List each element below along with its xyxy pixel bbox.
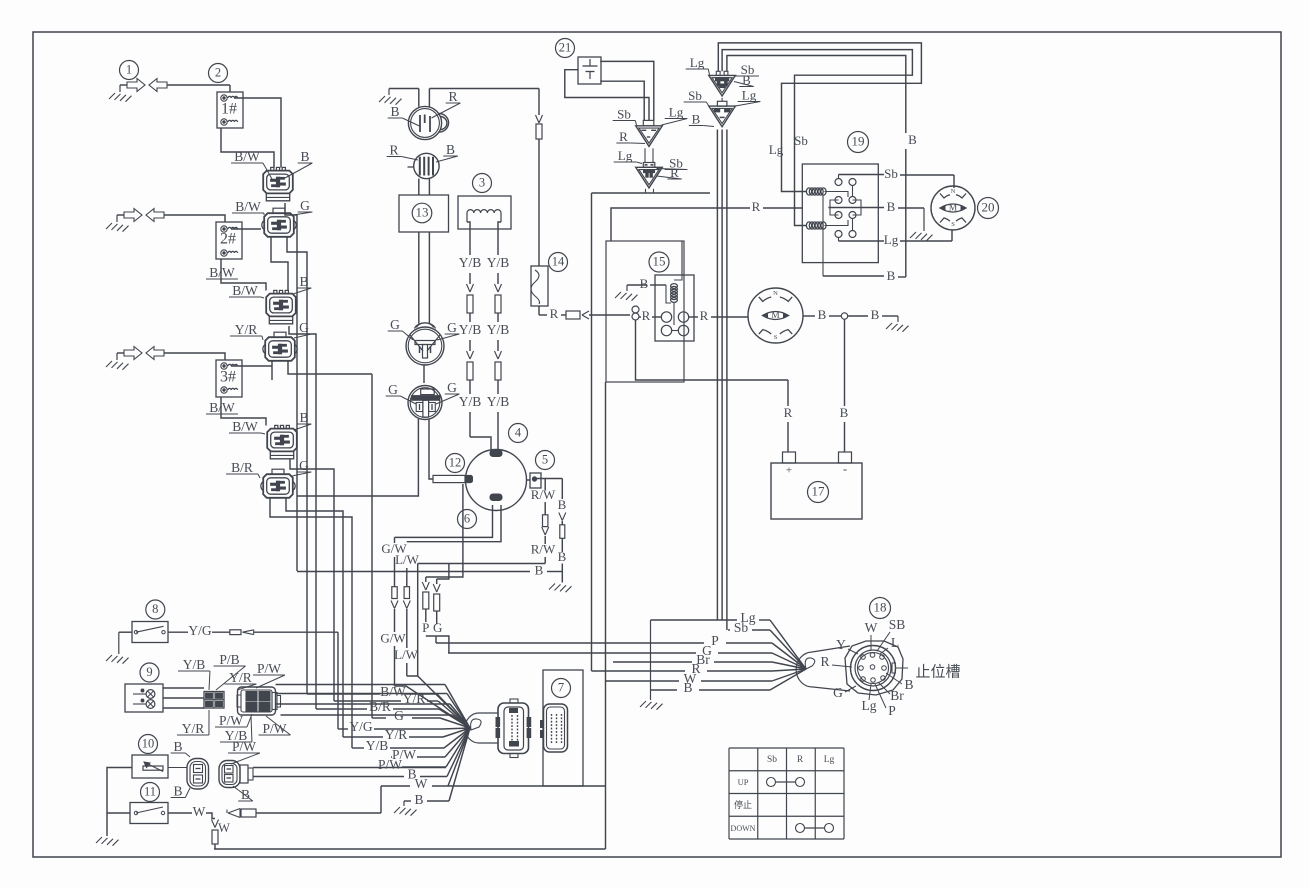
svg-text:19: 19 (852, 133, 865, 148)
svg-text:B/W: B/W (232, 419, 258, 434)
svg-text:DOWN: DOWN (731, 824, 756, 833)
svg-text:Y/B: Y/B (183, 657, 206, 672)
svg-text:B: B (535, 562, 544, 577)
svg-text:Sb: Sb (767, 755, 777, 765)
svg-text:Sb: Sb (794, 133, 808, 148)
svg-text:Y/B: Y/B (459, 255, 482, 270)
svg-text:P/W: P/W (378, 757, 402, 772)
svg-text:B: B (887, 199, 896, 214)
svg-text:1: 1 (126, 62, 132, 76)
svg-text:R/W: R/W (531, 487, 556, 502)
svg-text:10: 10 (142, 736, 155, 750)
svg-text:Y/B: Y/B (487, 322, 510, 337)
svg-text:Y/B: Y/B (487, 255, 510, 270)
svg-text:Y/R: Y/R (229, 670, 252, 685)
svg-text:21: 21 (559, 40, 572, 54)
svg-text:G: G (300, 198, 310, 213)
svg-text:L/W: L/W (395, 552, 420, 567)
svg-text:R: R (797, 755, 804, 765)
svg-text:Y/B: Y/B (459, 394, 482, 409)
svg-text:Y/B: Y/B (487, 394, 510, 409)
svg-text:R: R (752, 199, 761, 214)
svg-text:P/W: P/W (257, 661, 281, 676)
svg-text:B/W: B/W (234, 149, 260, 164)
svg-text:W: W (218, 821, 230, 835)
svg-text:B: B (446, 142, 455, 157)
svg-text:Y/R: Y/R (403, 691, 426, 706)
svg-text:5: 5 (542, 452, 548, 466)
svg-text:P/B: P/B (219, 652, 239, 667)
svg-text:R: R (784, 405, 793, 420)
svg-text:R: R (700, 308, 709, 323)
svg-text:3: 3 (479, 175, 485, 189)
svg-text:B: B (904, 677, 913, 692)
svg-text:N: N (773, 290, 778, 297)
svg-text:G: G (447, 320, 457, 335)
svg-text:L/W: L/W (394, 647, 419, 662)
svg-text:B: B (173, 739, 182, 754)
svg-text:B: B (558, 497, 567, 512)
svg-text:B/W: B/W (209, 400, 235, 415)
svg-text:G: G (388, 382, 398, 397)
svg-text:Y/B: Y/B (459, 322, 482, 337)
svg-text:B: B (300, 149, 309, 164)
svg-text:止位槽: 止位槽 (915, 663, 960, 680)
svg-text:Y/R: Y/R (235, 322, 258, 337)
svg-text:R: R (642, 308, 651, 323)
svg-text:P/W: P/W (262, 721, 286, 736)
svg-text:R: R (550, 306, 559, 321)
svg-text:W: W (865, 620, 878, 635)
svg-text:Sb: Sb (688, 88, 702, 103)
svg-text:13: 13 (416, 204, 429, 219)
svg-text:W: W (193, 804, 206, 819)
svg-text:Br: Br (890, 688, 904, 703)
svg-text:Y/G: Y/G (349, 719, 373, 734)
svg-text:停止: 停止 (734, 799, 752, 810)
svg-text:N: N (951, 188, 956, 195)
svg-text:P/W: P/W (232, 739, 256, 754)
svg-text:1#: 1# (221, 101, 237, 118)
svg-text:P: P (711, 633, 719, 648)
svg-text:G: G (433, 620, 442, 635)
svg-text:UP: UP (738, 777, 749, 787)
svg-text:B: B (908, 132, 917, 147)
svg-text:G: G (447, 380, 457, 395)
svg-text:G: G (833, 685, 843, 700)
svg-text:B: B (683, 680, 692, 695)
svg-text:Lg: Lg (669, 104, 684, 119)
svg-text:17: 17 (812, 483, 826, 498)
svg-text:L: L (891, 635, 899, 650)
svg-text:B: B (390, 104, 399, 119)
svg-text:-: - (843, 461, 847, 476)
svg-text:B/R: B/R (231, 460, 253, 475)
svg-text:4: 4 (515, 425, 522, 439)
svg-text:Lg: Lg (742, 87, 757, 102)
svg-text:Lg: Lg (884, 232, 899, 247)
svg-text:B: B (692, 111, 701, 126)
svg-text:B/W: B/W (209, 265, 235, 280)
svg-text:Lg: Lg (618, 148, 633, 163)
svg-text:14: 14 (552, 254, 565, 268)
svg-text:Lg: Lg (690, 55, 705, 70)
svg-text:R/W: R/W (531, 541, 556, 556)
svg-text:+: + (786, 465, 792, 477)
svg-text:R: R (389, 143, 398, 158)
svg-text:S: S (951, 221, 955, 228)
svg-text:G: G (394, 708, 404, 723)
svg-text:W: W (415, 776, 428, 791)
svg-text:6: 6 (464, 511, 470, 525)
svg-text:B/W: B/W (235, 199, 261, 214)
svg-text:18: 18 (874, 599, 887, 614)
svg-text:Sb: Sb (734, 620, 749, 635)
svg-text:15: 15 (653, 253, 666, 268)
svg-text:Lg: Lg (862, 698, 877, 713)
svg-text:R: R (619, 129, 628, 144)
svg-text:Y/G: Y/G (188, 623, 212, 638)
svg-text:P/W: P/W (219, 713, 243, 728)
svg-text:B: B (173, 784, 182, 799)
svg-text:R: R (448, 89, 457, 104)
svg-text:Lg: Lg (824, 755, 835, 765)
svg-text:11: 11 (144, 784, 156, 798)
svg-text:B: B (558, 549, 567, 564)
svg-text:B: B (818, 307, 827, 322)
svg-text:20: 20 (982, 199, 995, 214)
svg-text:P: P (888, 703, 896, 718)
svg-text:B/R: B/R (369, 699, 391, 714)
svg-text:Lg: Lg (769, 142, 784, 157)
svg-text:Sb: Sb (617, 106, 631, 121)
svg-text:G: G (390, 317, 400, 332)
svg-text:Y: Y (836, 637, 846, 652)
svg-text:8: 8 (152, 602, 158, 616)
svg-text:SB: SB (889, 617, 906, 632)
svg-text:R: R (820, 654, 829, 669)
svg-text:B: B (887, 268, 896, 283)
svg-text:G/W: G/W (380, 630, 406, 645)
svg-text:B: B (640, 276, 649, 291)
svg-text:B: B (871, 307, 880, 322)
svg-text:Y/R: Y/R (182, 721, 205, 736)
svg-text:M: M (949, 204, 958, 214)
svg-text:B: B (414, 792, 423, 807)
svg-text:P: P (422, 620, 429, 635)
svg-text:9: 9 (146, 665, 152, 679)
svg-text:M: M (771, 311, 780, 321)
svg-text:2#: 2# (220, 231, 236, 248)
svg-text:Y/B: Y/B (366, 738, 389, 753)
svg-text:2: 2 (215, 65, 221, 79)
svg-text:3#: 3# (220, 369, 236, 386)
svg-text:12: 12 (449, 455, 462, 469)
svg-text:S: S (774, 334, 778, 341)
svg-text:B: B (241, 787, 250, 802)
svg-text:B/W: B/W (232, 283, 258, 298)
svg-text:Sb: Sb (884, 166, 898, 181)
svg-text:B: B (840, 405, 849, 420)
svg-text:7: 7 (558, 680, 564, 694)
